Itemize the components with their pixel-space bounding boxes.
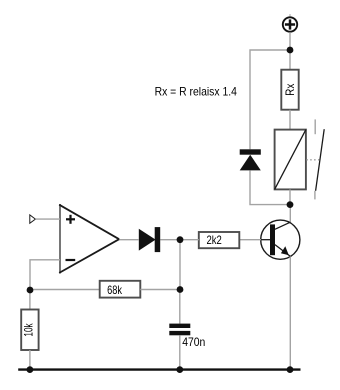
node D junction [27, 287, 34, 294]
wire stub above supply terminal [289, 14, 291, 17]
transistor Q1 (NPN) [261, 220, 300, 259]
relay contact: top terminal [314, 119, 316, 134]
relay coil K1 [275, 130, 306, 190]
svg-text:68k: 68k [107, 283, 123, 297]
supply terminal +V [283, 17, 297, 31]
ground junction dot middle [176, 366, 183, 373]
wire 2k2 to base [239, 239, 261, 241]
ground rail [18, 368, 300, 370]
op-amp U1 [59, 204, 119, 274]
wire op-amp inverting feedback to node D [30, 260, 60, 290]
wire node D to 68k [30, 289, 100, 291]
diode D1 (flyback, cathode up) [240, 149, 261, 170]
wire diode D1 bottom to node B [250, 170, 290, 204]
input arrow terminal [30, 215, 36, 223]
node A junction [287, 47, 294, 54]
ground junction dot left [27, 366, 34, 373]
capacitor C1 [169, 324, 205, 349]
node B junction [287, 201, 294, 208]
svg-text:Rx: Rx [283, 84, 297, 96]
svg-text:470n: 470n [182, 335, 205, 349]
ground junction dot right [287, 366, 294, 373]
wire node A to resistor Rx [289, 50, 291, 70]
wire diode D2 to node C [160, 239, 180, 241]
node C junction [177, 236, 184, 243]
wire node C to node E [179, 240, 181, 290]
svg-text:Rx = R relaisx 1.4: Rx = R relaisx 1.4 [155, 85, 238, 99]
wire node E to capacitor [179, 290, 181, 324]
resistor 2k2 [199, 232, 240, 248]
wire node A to flyback diode branch [250, 50, 290, 149]
node E junction [177, 286, 184, 293]
wire capacitor to ground [179, 335, 181, 369]
wire node D to 10k [29, 290, 31, 310]
wire 68k to node E [140, 289, 180, 291]
wire relay coil to node B [289, 189, 291, 204]
resistor Rx [281, 70, 298, 110]
wire emitter to ground [289, 256, 291, 369]
wire input arrow to op-amp non-inverting [35, 218, 60, 220]
wire supply to node A [289, 32, 291, 50]
diode D2 (series, pointing right) [139, 227, 160, 252]
wire 10k to ground [29, 350, 31, 370]
wire node B to collector [289, 205, 291, 223]
svg-text:2k2: 2k2 [207, 233, 223, 247]
wire op-amp output to diode D2 [119, 239, 139, 241]
wire node C to 2k2 [180, 239, 199, 241]
dotted actuation link relay to contact [306, 159, 320, 161]
svg-text:10k: 10k [22, 323, 36, 337]
relay contact: blade [316, 129, 325, 191]
resistor 68k [100, 281, 141, 298]
resistor 10k [21, 310, 38, 351]
wire Rx to relay coil [289, 110, 291, 130]
relay contact: bottom terminal [314, 191, 316, 200]
